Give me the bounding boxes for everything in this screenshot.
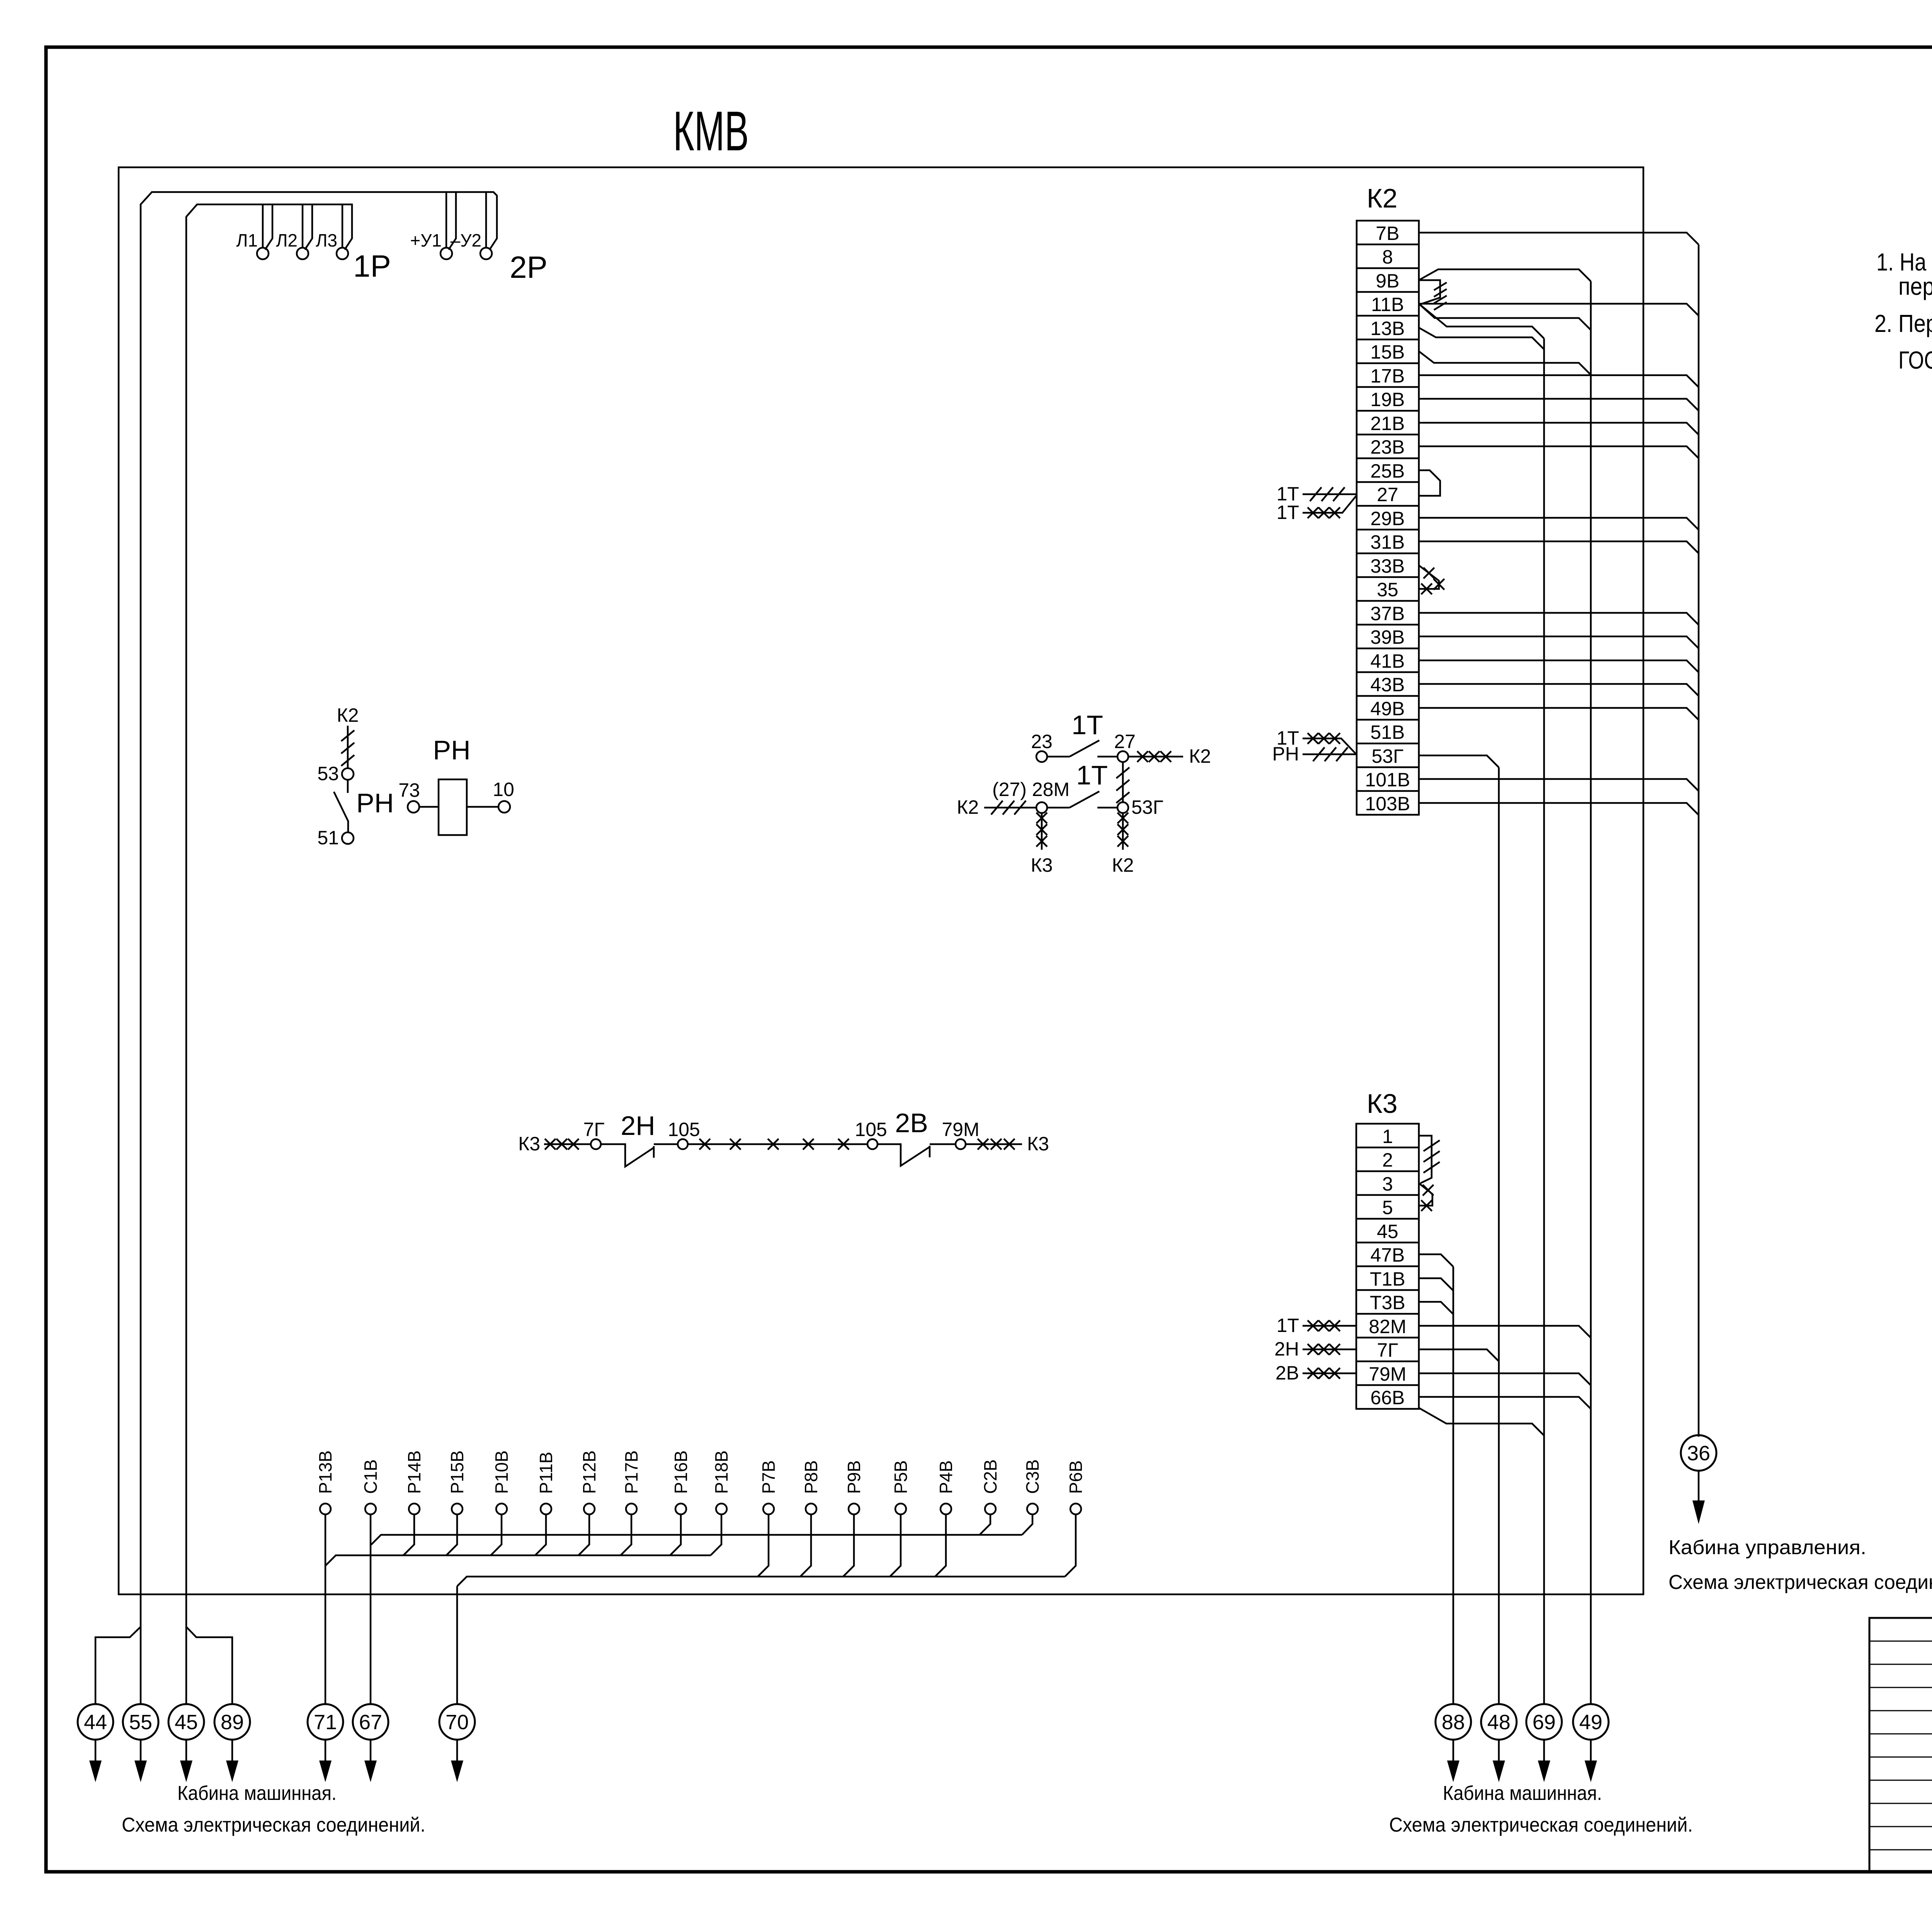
trunk wire to circles 44/55 (У1,У2 cable): [141, 192, 497, 1704]
wire 1Т new at 27: [1303, 496, 1356, 513]
trunk t2 to circle 71: [326, 1555, 711, 1565]
svg-text:1Т: 1Т: [1071, 710, 1103, 740]
svg-text:11В: 11В: [1371, 294, 1404, 315]
wire 41В to cable 36: [1419, 660, 1699, 672]
arrow below 49: [1590, 1740, 1592, 1761]
trunk t3 to circle 70: [457, 1577, 1065, 1586]
wire Р4В drop: [935, 1514, 946, 1577]
node 105 right: [867, 1139, 878, 1149]
wire Р12В drop: [578, 1514, 589, 1555]
coil РН rectangle: [439, 779, 467, 835]
svg-text:19В: 19В: [1371, 389, 1405, 410]
svg-text:Л3: Л3: [316, 230, 337, 250]
terminal У1 stub wire: [446, 192, 456, 250]
terminal Р17В: [626, 1504, 637, 1514]
arrow below 69: [1543, 1740, 1545, 1761]
svg-text:88: 88: [1442, 1711, 1465, 1734]
svg-text:49: 49: [1579, 1711, 1602, 1734]
svg-text:РН: РН: [1272, 743, 1299, 765]
svg-text:Р15В: Р15В: [447, 1450, 467, 1494]
svg-text:2. Перемонтаж выполнить провод: 2. Перемонтаж выполнить проводом ПГВ 2,5…: [1874, 310, 1932, 337]
svg-text:С1В: С1В: [361, 1459, 381, 1494]
terminal Л2: [297, 248, 308, 259]
terminal У2: [485, 192, 487, 248]
sheet ref circle 44: [78, 1704, 113, 1740]
wire 103В to cable 36: [1419, 803, 1699, 815]
svg-text:1. На схеме показаны аппараты,: 1. На схеме показаны аппараты, учавствую…: [1876, 248, 1932, 276]
svg-text:45: 45: [1377, 1221, 1398, 1242]
strike marks /// at 53Г: [1313, 747, 1348, 761]
svg-text:Схема электрическая соединений: Схема электрическая соединений.: [122, 1814, 425, 1836]
svg-text:2В: 2В: [895, 1108, 928, 1138]
svg-text:Р11В: Р11В: [536, 1452, 556, 1494]
svg-text:Р13В: Р13В: [315, 1450, 335, 1494]
svg-text:К2: К2: [957, 796, 979, 818]
svg-text:Р16В: Р16В: [671, 1450, 691, 1494]
terminal Л2 stub wire: [303, 204, 312, 250]
svg-text:К3: К3: [1031, 854, 1053, 876]
svg-text:37В: 37В: [1371, 603, 1405, 624]
node 51: [342, 832, 354, 844]
title block left grid horizontals: [1869, 1641, 1932, 1850]
svg-text:РН: РН: [356, 788, 394, 818]
svg-text:105: 105: [855, 1119, 887, 1140]
wire 19В to cable 36: [1419, 399, 1699, 411]
terminal С3В: [1027, 1504, 1038, 1514]
strike marks ××× on К3-7Г: [545, 1139, 579, 1150]
sheet ref circle 69: [1526, 1704, 1562, 1740]
svg-text:51: 51: [317, 827, 339, 849]
svg-text:105: 105: [668, 1119, 700, 1140]
svg-text:Р12В: Р12В: [579, 1450, 599, 1494]
svg-text:Р17В: Р17В: [621, 1450, 641, 1494]
terminal С1В: [365, 1504, 376, 1514]
wire 79М to cable 49: [1419, 1373, 1591, 1385]
wire Р13В to circle 71: [325, 1514, 327, 1704]
svg-text:Р10В: Р10В: [492, 1450, 512, 1494]
terminal Р9В: [849, 1504, 859, 1514]
wire 23В to cable 36: [1419, 446, 1699, 458]
wire 1Т new at 53Г: [1303, 738, 1356, 754]
wire 49В to cable 36: [1419, 708, 1699, 720]
svg-text:К3: К3: [518, 1133, 540, 1155]
wire Р18В drop: [711, 1514, 721, 1555]
wire Р5В drop: [890, 1514, 901, 1577]
svg-text:49В: 49В: [1371, 698, 1405, 720]
wire 79М to К3 (new): [966, 1143, 1022, 1145]
wire 43В to cable 36: [1419, 684, 1699, 696]
new jumper 33В-35: [1419, 565, 1439, 589]
cable trunk to circle 48: [1498, 767, 1500, 1704]
terminal Р13В: [320, 1504, 331, 1514]
svg-text:103В: 103В: [1365, 793, 1410, 815]
svg-text:45: 45: [175, 1711, 198, 1734]
wire К3 to 7Г (new): [544, 1143, 591, 1145]
svg-text:Т1В: Т1В: [1370, 1268, 1405, 1290]
svg-text:К3: К3: [1367, 1089, 1398, 1119]
node 53: [342, 768, 354, 780]
strike marks × on 105-105: [699, 1139, 849, 1150]
wire 47В to cable 88: [1419, 1254, 1453, 1267]
wire С3В drop: [1022, 1514, 1032, 1535]
trunk wire to circles 45/89 (Л1,Л2,Л3 cable): [186, 204, 352, 1704]
svg-text:7Г: 7Г: [1377, 1339, 1398, 1361]
svg-text:2Р: 2Р: [510, 250, 548, 284]
terminal Р16В: [675, 1504, 686, 1514]
terminal У1: [440, 248, 452, 259]
contact РН blade: [334, 780, 348, 832]
svg-text:35: 35: [1377, 579, 1398, 600]
terminal Р18В: [716, 1504, 727, 1514]
arrow below 67: [370, 1740, 372, 1761]
svg-text:10: 10: [493, 779, 514, 800]
terminal Р5В: [895, 1504, 906, 1514]
wire 66В to cable 69: [1419, 1408, 1544, 1436]
svg-text:7В: 7В: [1376, 223, 1399, 244]
svg-text:89: 89: [221, 1711, 244, 1734]
cable trunk to circle 36: [1698, 245, 1700, 1437]
svg-text:Р5В: Р5В: [891, 1460, 911, 1494]
svg-text:71: 71: [314, 1711, 337, 1734]
wire branch to circle 44: [95, 1627, 141, 1704]
svg-text:–У2: –У2: [451, 230, 481, 250]
svg-text:2В: 2В: [1276, 1362, 1299, 1384]
wire Р9В drop: [843, 1514, 854, 1577]
wire 13В to cable 69: [1419, 328, 1544, 349]
wire 27 to 53Г (removed): [1122, 762, 1124, 802]
svg-text:48: 48: [1487, 1711, 1510, 1734]
contact 1Т upper blade: [1047, 740, 1117, 757]
sheet ref circle 36: [1681, 1435, 1716, 1471]
svg-text:25В: 25В: [1371, 460, 1405, 482]
strike marks /// at 27: [1310, 487, 1345, 501]
svg-text:ГОСТ 6323–71 согласно условным: ГОСТ 6323–71 согласно условным обозначен…: [1898, 346, 1932, 374]
wire 73 to coil: [419, 806, 439, 808]
svg-text:Л2: Л2: [276, 230, 298, 250]
svg-text:С3В: С3В: [1022, 1459, 1043, 1494]
terminal Л3: [342, 204, 344, 248]
terminal block K3: [1356, 1124, 1419, 1409]
svg-text:51В: 51В: [1371, 721, 1405, 743]
svg-text:15В: 15В: [1371, 341, 1405, 363]
svg-text:2: 2: [1382, 1149, 1393, 1171]
svg-text:7Г: 7Г: [583, 1119, 605, 1140]
sheet ref circle 55: [123, 1704, 158, 1740]
wire 39В to cable 36: [1419, 636, 1699, 648]
svg-text:К2: К2: [1112, 854, 1134, 876]
svg-text:23: 23: [1031, 731, 1053, 752]
arrow below 71: [325, 1740, 327, 1761]
svg-text:2Н: 2Н: [1274, 1338, 1299, 1360]
strike marks ××× on 28М-К3: [1036, 813, 1047, 847]
contact 1Т lower blade: [1047, 791, 1117, 808]
svg-text:Р18В: Р18В: [711, 1450, 731, 1494]
arrow below 89: [231, 1740, 233, 1761]
sheet ref circle 70: [439, 1704, 475, 1740]
wire 11В to cable 69: [1419, 304, 1544, 338]
node 105 left: [678, 1139, 688, 1149]
wire 53Г to cable 48: [1419, 755, 1499, 767]
wire t3 down to circle 70: [456, 1586, 458, 1704]
svg-text:1Т: 1Т: [1277, 502, 1299, 523]
contact 2Н: [601, 1144, 678, 1167]
terminal Р6В: [1070, 1504, 1081, 1514]
wire 17В to cable 36: [1419, 375, 1699, 387]
sheet ref circle 49: [1573, 1704, 1609, 1740]
arrow below 45: [185, 1740, 187, 1761]
node 10: [498, 801, 510, 813]
arrow below 48: [1498, 1740, 1500, 1761]
svg-text:82М: 82М: [1369, 1316, 1406, 1337]
svg-text:перемонтаже.: перемонтаже.: [1898, 272, 1932, 300]
strike marks /// on К2-28М: [991, 801, 1026, 815]
terminal Р12В: [584, 1504, 595, 1514]
wire 101В to cable 36: [1419, 779, 1699, 791]
svg-text:3: 3: [1382, 1173, 1393, 1195]
strike marks /// on 27-53Г: [1116, 767, 1129, 803]
svg-text:К2: К2: [1189, 745, 1211, 767]
wire К2 to 28М (removed): [984, 807, 1036, 809]
wire 2Н new at 7Г: [1303, 1349, 1356, 1351]
strike marks ××× at 53Г: [1308, 733, 1340, 744]
arrow below 36: [1698, 1471, 1700, 1501]
wire 15В to cable 49: [1419, 351, 1591, 375]
wire 66В to cable 49: [1419, 1397, 1591, 1409]
svg-text:Р4В: Р4В: [936, 1460, 956, 1494]
svg-text:101В: 101В: [1365, 769, 1410, 791]
wire Р11В drop: [535, 1514, 546, 1555]
wire 9В to cable 49: [1419, 269, 1591, 281]
arrow below 70: [456, 1740, 458, 1761]
svg-text:31В: 31В: [1371, 531, 1405, 553]
terminal block K2: [1357, 221, 1419, 815]
node 28М: [1036, 802, 1047, 813]
svg-text:РН: РН: [433, 735, 470, 765]
strike marks ××× on 27-К2: [1137, 751, 1171, 762]
svg-text:8: 8: [1382, 246, 1393, 268]
wire Р7В drop: [758, 1514, 769, 1577]
svg-text:66В: 66В: [1371, 1387, 1405, 1408]
removed jumper 9В-11В: [1419, 280, 1440, 304]
terminal Р11В: [541, 1504, 551, 1514]
svg-text:Кабина управления.: Кабина управления.: [1668, 1536, 1866, 1559]
svg-text:Л1: Л1: [236, 230, 258, 250]
wire С1В to circle 67: [370, 1514, 372, 1704]
strike marks /// on К2-53 wire: [341, 730, 354, 766]
svg-text:53: 53: [317, 763, 339, 784]
wire Р14В drop: [403, 1514, 414, 1555]
cable trunk to circle 69: [1543, 338, 1545, 1704]
svg-text:9В: 9В: [1376, 270, 1399, 292]
wire Р17В drop: [621, 1514, 631, 1555]
svg-text:К2: К2: [337, 704, 359, 726]
new jumper 3-5 on K3: [1419, 1183, 1432, 1206]
svg-text:1Т: 1Т: [1076, 760, 1108, 790]
svg-text:17В: 17В: [1371, 365, 1405, 387]
svg-text:(27) 28М: (27) 28М: [992, 779, 1070, 800]
wire 27 to К2 (new): [1128, 756, 1183, 758]
strike marks ××× on 79М-К3: [978, 1139, 1015, 1150]
terminal Л1: [257, 248, 269, 259]
svg-text:67: 67: [359, 1711, 382, 1734]
wire 1Т new at 82М: [1303, 1325, 1356, 1327]
svg-text:1: 1: [1382, 1126, 1393, 1147]
wire 11В to cable 49: [1419, 304, 1591, 330]
cable trunk to circle 88: [1452, 1267, 1454, 1704]
strike marks /// on jumper 1-3: [1423, 1140, 1440, 1173]
title block frame: [1869, 1618, 1932, 1872]
svg-text:Схема электрическая соединений: Схема электрическая соединений.: [1389, 1814, 1693, 1836]
svg-text:27: 27: [1377, 484, 1398, 505]
wire Р10В drop: [491, 1514, 502, 1555]
trunk t1 to circle 67: [371, 1535, 1022, 1545]
svg-text:1Т: 1Т: [1277, 1315, 1299, 1336]
wire 105-105 (new): [688, 1143, 867, 1145]
strike marks × on jumper 3-5: [1421, 1185, 1434, 1211]
terminal Р10В: [496, 1504, 507, 1514]
wire Р8В drop: [800, 1514, 811, 1577]
sheet ref circle 71: [308, 1704, 343, 1740]
svg-text:Р14В: Р14В: [404, 1450, 424, 1494]
strike marks ××× at 27: [1308, 507, 1340, 518]
terminal Р8В: [806, 1504, 816, 1514]
svg-text:39В: 39В: [1371, 626, 1405, 648]
svg-text:33В: 33В: [1371, 555, 1405, 577]
terminal Р14В: [409, 1504, 420, 1514]
sheet ref circle 48: [1481, 1704, 1517, 1740]
svg-text:5: 5: [1382, 1197, 1393, 1218]
svg-text:21В: 21В: [1371, 413, 1405, 434]
node 73: [408, 801, 419, 813]
strike marks ××× on 53Г-К2: [1117, 813, 1128, 847]
svg-text:79М: 79М: [942, 1119, 979, 1140]
svg-text:Т3В: Т3В: [1370, 1292, 1405, 1313]
svg-text:53Г: 53Г: [1131, 796, 1163, 818]
svg-text:Р7В: Р7В: [759, 1460, 779, 1494]
arrow below 44: [95, 1740, 97, 1761]
wire РН removed at 53Г: [1303, 754, 1356, 755]
svg-text:Схема электрическая соединений: Схема электрическая соединений.: [1668, 1571, 1932, 1594]
jumper 25В-27: [1419, 470, 1440, 496]
node 27: [1117, 751, 1128, 762]
svg-text:55: 55: [129, 1711, 152, 1734]
svg-text:К2: К2: [1367, 183, 1398, 213]
wire 2В new at 79М: [1303, 1373, 1356, 1374]
sheet ref circle 89: [214, 1704, 250, 1740]
arrow below 88: [1452, 1740, 1454, 1761]
svg-text:44: 44: [84, 1711, 107, 1734]
svg-text:79М: 79М: [1369, 1363, 1406, 1385]
svg-text:С2В: С2В: [980, 1459, 1000, 1494]
sheet ref circle 45: [168, 1704, 204, 1740]
strike marks on jumper 9В-11В: [1434, 282, 1447, 310]
wire 29В to cable 36: [1419, 518, 1699, 530]
wire 7Г to cable 48: [1419, 1349, 1499, 1361]
wire 53Г to К2 (new): [1122, 813, 1124, 850]
svg-text:36: 36: [1687, 1442, 1710, 1465]
wire 11В to cable 36: [1419, 304, 1699, 316]
terminal Л1 stub wire: [263, 204, 272, 250]
wire Р16В drop: [670, 1514, 681, 1555]
svg-text:13В: 13В: [1371, 318, 1405, 339]
wire 21В to cable 36: [1419, 423, 1699, 435]
terminal Р4В: [940, 1504, 951, 1514]
svg-text:+У1: +У1: [410, 230, 442, 250]
svg-text:41В: 41В: [1371, 650, 1405, 672]
wire Р15В drop: [446, 1514, 457, 1555]
wire 28М to К3 (new): [1041, 813, 1043, 850]
contact 2В: [878, 1144, 956, 1166]
sheet ref circle 88: [1435, 1704, 1471, 1740]
wire Р6В drop: [1065, 1514, 1076, 1577]
wire 7В to cable 36: [1419, 233, 1699, 245]
svg-text:29В: 29В: [1371, 508, 1405, 529]
wire 1Т removed at 27: [1303, 493, 1357, 495]
svg-text:Кабина машинная.: Кабина машинная.: [1443, 1782, 1602, 1805]
removed jumper 1-3 on K3: [1419, 1136, 1432, 1183]
node 7Г: [591, 1139, 601, 1149]
wire Т3В to cable 88: [1419, 1302, 1453, 1314]
svg-text:1Р: 1Р: [353, 249, 391, 283]
svg-text:2Н: 2Н: [621, 1111, 655, 1141]
cable trunk to circle 49: [1590, 281, 1592, 1704]
node 79М: [956, 1139, 966, 1149]
svg-text:КМВ: КМВ: [673, 100, 749, 162]
wire Т1В to cable 88: [1419, 1278, 1453, 1291]
arrow below 55: [140, 1740, 142, 1761]
terminal С2В: [985, 1504, 996, 1514]
wire 31В to cable 36: [1419, 541, 1699, 553]
strike marks × on jumper 33В-35: [1421, 568, 1444, 594]
sheet ref circle 67: [353, 1704, 388, 1740]
wire coil to 10: [467, 806, 498, 808]
svg-text:53Г: 53Г: [1372, 745, 1404, 767]
svg-text:23В: 23В: [1371, 436, 1405, 458]
wire С2В drop: [980, 1514, 990, 1535]
svg-text:Р6В: Р6В: [1066, 1460, 1086, 1494]
node 53Г: [1117, 802, 1128, 813]
terminal Р15В: [452, 1504, 463, 1514]
svg-text:Р9В: Р9В: [844, 1460, 864, 1494]
wire branch to circle 89: [186, 1627, 232, 1704]
wire К2 to node 53 (removed): [347, 726, 349, 768]
svg-text:70: 70: [446, 1711, 469, 1734]
node 23: [1036, 751, 1047, 762]
svg-text:К3: К3: [1027, 1133, 1049, 1155]
svg-text:27: 27: [1114, 731, 1136, 752]
svg-text:73: 73: [398, 779, 420, 801]
terminal Р7В: [763, 1504, 774, 1514]
KMB enclosure box: [119, 167, 1643, 1594]
wire 82М to cable 49: [1419, 1326, 1591, 1338]
svg-text:47В: 47В: [1371, 1244, 1405, 1266]
svg-text:Р8В: Р8В: [801, 1460, 821, 1494]
svg-text:43В: 43В: [1371, 674, 1405, 696]
svg-text:69: 69: [1532, 1711, 1556, 1734]
svg-text:Кабина машинная.: Кабина машинная.: [177, 1782, 337, 1805]
wire 37В to cable 36: [1419, 613, 1699, 625]
